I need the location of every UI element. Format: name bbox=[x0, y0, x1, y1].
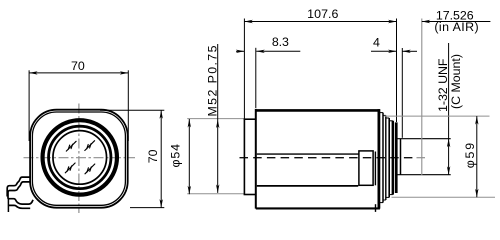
front view horizontal centerline bbox=[24, 157, 136, 159]
front 70 dim right extension line bbox=[127, 70, 129, 141]
front vertical 70 dim top arrow bbox=[160, 110, 163, 119]
1-32 UNF up arrow bbox=[447, 139, 450, 148]
image plane line gray bbox=[421, 19, 423, 176]
8.3 right arrowhead bbox=[256, 50, 265, 53]
4 dim left arrowhead pointing right bbox=[388, 50, 397, 53]
c-mount cylinder bottom edge with extension bbox=[398, 174, 451, 176]
svg-text:(in AIR): (in AIR) bbox=[434, 20, 478, 34]
svg-text:φ54: φ54 bbox=[168, 144, 182, 168]
17.526 dim line bbox=[422, 21, 491, 23]
rear ring A bbox=[382, 113, 384, 203]
svg-text:107.6: 107.6 bbox=[307, 7, 338, 21]
svg-text:70: 70 bbox=[146, 149, 160, 163]
focus tab top wavy line 1 bbox=[7, 177, 31, 196]
rear ring D thick bbox=[392, 121, 394, 195]
focus tab bottom wavy line 2 bbox=[8, 205, 30, 208]
lens glass rim circle bbox=[53, 131, 107, 185]
rear ring C top step bbox=[386, 117, 389, 119]
phi54 dim top arrow bbox=[188, 119, 191, 128]
side clamp rectangle bbox=[359, 151, 373, 185]
focus tab top wavy line 2 bbox=[8, 182, 31, 199]
phi54 top extension line gray bbox=[187, 118, 244, 120]
side body right edge bbox=[377, 109, 380, 209]
rear ring C bottom step bbox=[386, 196, 389, 198]
side flange top edge bbox=[244, 118, 256, 120]
rear ring A bottom step bbox=[379, 202, 383, 204]
phi59 bottom arrow bbox=[475, 189, 478, 198]
rear ring D bottom step bbox=[389, 194, 393, 196]
rear ring C bbox=[388, 118, 390, 197]
svg-text:(C Mount): (C Mount) bbox=[449, 54, 463, 109]
front vertical 70 dim bottom extension line bbox=[130, 207, 164, 209]
1-32 UNF dim line bbox=[448, 43, 450, 175]
8.3 extension line bbox=[255, 48, 257, 108]
front 70 dim left arrow bbox=[29, 71, 37, 74]
c-mount thread groove line bbox=[400, 139, 402, 175]
rear ring D top step bbox=[389, 120, 393, 122]
glass glint lower-left bbox=[65, 163, 75, 173]
front housing inner squircle line bbox=[32, 112, 125, 205]
lens front ring thick circle bbox=[43, 120, 117, 194]
front 70 dim right arrow bbox=[120, 71, 129, 74]
107.6 right extension line bbox=[396, 19, 398, 123]
svg-text:4: 4 bbox=[373, 35, 380, 49]
M52 dim up arrow bbox=[216, 120, 219, 129]
phi59 dim line bbox=[476, 116, 478, 197]
phi54 dim bottom arrow bbox=[188, 186, 191, 195]
phi59 bottom extension line gray bbox=[392, 196, 496, 198]
rear ring B top step bbox=[383, 114, 386, 116]
107.6 left arrow bbox=[244, 20, 253, 23]
focus tab bottom wavy line 1 bbox=[8, 199, 33, 204]
107.6 left extension line bbox=[243, 19, 245, 120]
glass glint upper-left bbox=[66, 141, 76, 151]
rear mount flange plate bbox=[395, 122, 398, 193]
M52 dim line bbox=[217, 44, 219, 193]
svg-text:70: 70 bbox=[71, 59, 85, 73]
front 70 dim line bbox=[29, 72, 128, 74]
8.3 dim line left segment with arrow bbox=[236, 50, 244, 52]
glass glint upper-right bbox=[85, 141, 95, 151]
side view centerline gray tail bbox=[417, 157, 428, 159]
side clamp extra vertical line bbox=[374, 152, 376, 186]
rear ring B bbox=[385, 115, 387, 200]
lens middle ring circle bbox=[49, 126, 111, 188]
4 dim line right segment bbox=[402, 50, 417, 52]
rear ring A top step bbox=[379, 112, 383, 114]
M52 dim down arrow bbox=[216, 184, 219, 193]
phi59 top extension line gray bbox=[384, 115, 489, 117]
phi59 top arrow bbox=[475, 116, 478, 125]
svg-text:φ59: φ59 bbox=[463, 143, 477, 169]
side body left edge bbox=[255, 109, 257, 209]
focus tab bottom left cap bbox=[7, 199, 9, 212]
side body top edge bbox=[256, 109, 380, 112]
front 70 dim left extension line bbox=[28, 70, 30, 141]
svg-text:8.3: 8.3 bbox=[272, 35, 289, 49]
8.3 left arrowhead bbox=[236, 50, 245, 53]
phi54 bottom extension line gray bbox=[187, 193, 244, 195]
front housing outer squircle bbox=[30, 110, 128, 208]
front vertical 70 dim line bbox=[160, 110, 162, 207]
side slot bottom line bbox=[257, 185, 358, 187]
front vertical 70 dim bottom arrow bbox=[160, 199, 163, 208]
front vertical 70 dim top extension line bbox=[100, 109, 164, 111]
side front flange face bbox=[243, 119, 245, 194]
phi54 dim line bbox=[188, 119, 190, 194]
107.6 right arrow bbox=[388, 20, 397, 23]
front view vertical centerline bbox=[78, 104, 80, 214]
c-mount cylinder top edge with extension bbox=[398, 138, 451, 140]
rear ring B bottom step bbox=[383, 199, 386, 201]
4 dim line left segment bbox=[371, 50, 397, 52]
glass glint lower-right bbox=[85, 164, 95, 174]
107.6 dim line bbox=[244, 21, 396, 23]
4 dim extension line bbox=[401, 48, 403, 138]
4 dim right arrowhead pointing left bbox=[402, 50, 411, 53]
side view centerline dark bbox=[240, 157, 417, 159]
side flange bottom edge bbox=[244, 194, 256, 196]
17.526 left arrow bbox=[422, 20, 431, 23]
body seam tick at bottom edge bbox=[375, 204, 377, 212]
1-32 UNF down arrow bbox=[447, 166, 450, 175]
side slot top line bbox=[257, 153, 359, 155]
8.3 dim line right segment bbox=[256, 50, 300, 52]
side body bottom edge bbox=[256, 207, 380, 209]
